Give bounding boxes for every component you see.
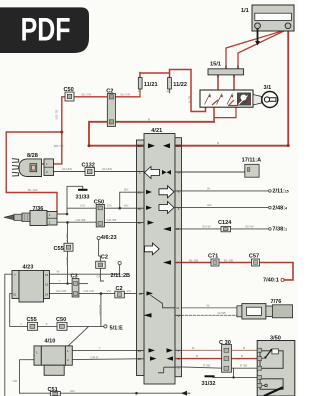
- svg-text:PDF: PDF: [21, 12, 71, 48]
